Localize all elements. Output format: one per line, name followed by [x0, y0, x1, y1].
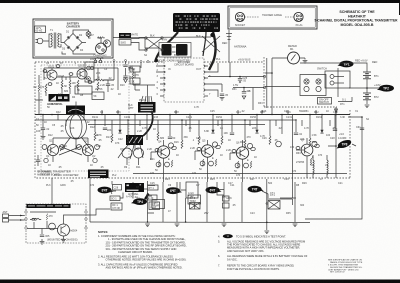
capacitor C112: [230, 133, 234, 135]
transistor Q101: [47, 66, 57, 81]
trainer connector right: [294, 12, 303, 26]
capacitor C31: [123, 73, 132, 79]
right edge scan mark: [399, 3, 400, 15]
capacitor C111: [168, 137, 176, 140]
wire mid link: [208, 62, 265, 110]
connector circle on x267: [266, 203, 268, 205]
battery pack (black): [173, 13, 220, 32]
ground rf box: [40, 242, 45, 245]
resistor R101: [56, 80, 63, 89]
resistor RE4a: [158, 160, 160, 167]
notes right column: [218, 234, 308, 270]
left edge column parts: [35, 75, 43, 115]
wire cable between connectors: [143, 113, 153, 137]
wire charger internals: [62, 43, 96, 55]
ground lower mid: [264, 231, 269, 234]
resistor R115: [198, 136, 200, 145]
cable branch: [203, 32, 206, 56]
TP6 test point: [206, 187, 222, 194]
inner dashed sub-box: [41, 65, 129, 171]
driver module box: [265, 75, 326, 96]
trainer cable box: [228, 6, 317, 29]
wire TP feeds: [112, 144, 356, 198]
TP5 test point: [166, 187, 182, 194]
wire transistor row stubs: [53, 138, 307, 182]
connector circles on dashed edge: [113, 60, 149, 63]
resistor R2 left: [34, 84, 40, 92]
switch S2 box: [119, 40, 131, 46]
wire battery column: [353, 63, 367, 104]
black label transmitter board: [88, 170, 109, 179]
small box J4: [152, 200, 165, 209]
resistor R110: [94, 132, 102, 141]
ground rail 3: [222, 224, 227, 227]
trim box chain b: [130, 78, 140, 84]
wire oscillator top rail: [44, 68, 118, 90]
resistor R104: [40, 84, 47, 93]
+9.6V bus wire: [35, 114, 350, 116]
rf oscillator box: [317, 68, 350, 89]
transistor Q8: [276, 141, 282, 147]
horizontal control black pot: [47, 94, 69, 106]
small box RF choke: [111, 203, 122, 210]
transformer T1: [47, 29, 59, 49]
extra speck labels oscillator: [36, 58, 125, 187]
wire mid feeders: [128, 62, 336, 205]
capacitor C101: [106, 84, 115, 87]
sub box with pins right of Q102: [85, 62, 94, 82]
transistor Q2: [82, 140, 93, 156]
transistor row labels: [48, 146, 295, 173]
ground rf box 2: [61, 240, 66, 243]
small stack box right of TP6 b: [223, 203, 230, 208]
battery cells holder: [159, 43, 191, 58]
black connector block SO201: [126, 135, 143, 145]
third bus wire: [88, 124, 265, 126]
resistor RE5b: [215, 159, 217, 166]
lower extra labels: [54, 174, 343, 187]
wire encoder-right vertical: [266, 58, 268, 108]
pilot lamp: [86, 30, 91, 36]
stick 2 fan wires: [118, 145, 143, 159]
coil L3: [327, 160, 328, 174]
battery charger enclosure box: [33, 19, 113, 58]
resistor RE6a: [237, 161, 239, 168]
resistor R105: [97, 82, 105, 91]
resistor R119: [309, 134, 317, 147]
notes left column: [98, 230, 187, 270]
transistor Q1: [47, 140, 58, 156]
extra speck labels transistor row: [46, 148, 314, 177]
resistor R106 horizontal: [94, 77, 114, 81]
trim pots under Q5: [200, 161, 213, 166]
TP3 test point: [98, 187, 114, 194]
wire box links: [86, 181, 155, 222]
cable cross arrow: [202, 36, 220, 52]
diode D110: [118, 130, 121, 133]
transistor Q102: [77, 65, 87, 80]
coil L201: [30, 218, 41, 219]
switch symbol S1: [335, 109, 338, 113]
connector circle on x147: [147, 198, 149, 200]
on-off switch label box: [318, 98, 332, 105]
wire bus short stubs: [58, 110, 330, 126]
wire TP2 tail: [349, 87, 379, 89]
charge jack black label: [119, 33, 131, 39]
wire trim chain: [135, 72, 140, 90]
diode D113: [320, 130, 323, 133]
wires RF box internals: [27, 212, 86, 241]
transistor Q4: [157, 141, 173, 159]
wire cross-coupling X: [59, 146, 82, 155]
wire charger to cells: [113, 37, 211, 48]
antenna jack: [3, 211, 25, 222]
trim pot box: [75, 86, 92, 94]
resistor R130: [132, 72, 139, 80]
label rf power amplifier: [37, 171, 51, 177]
resistor R111: [107, 129, 113, 143]
ground meter: [303, 61, 308, 64]
diode D111: [211, 130, 214, 133]
black blob cable end: [155, 59, 158, 62]
scattered value labels row B: [98, 130, 331, 145]
transistor Q6: [236, 142, 253, 160]
battery BT2: [363, 93, 379, 100]
vertical control black pot: [66, 106, 85, 115]
wire emitter return rail: [133, 173, 347, 175]
wire right lower: [280, 115, 296, 199]
wire left column: [42, 115, 44, 137]
TP1 test point: [338, 61, 354, 68]
rail drop wires: [52, 178, 295, 230]
encoder pin stubs: [160, 66, 208, 96]
junction circled A: [263, 75, 265, 77]
capacitor C61: [360, 128, 364, 130]
wire oscillator links: [46, 76, 108, 96]
transistor Q3: [122, 148, 144, 158]
small box SO1: [110, 196, 120, 201]
meter transistor A6504: [58, 224, 78, 236]
small box J5: [188, 195, 201, 204]
charging plug mate circles: [94, 58, 102, 63]
pin bubbles Q7: [296, 144, 319, 149]
capacitor C113: [294, 133, 303, 136]
right stack box B: [147, 195, 157, 200]
stick shaft wire: [75, 102, 77, 115]
trim pots under Q4: [156, 162, 169, 167]
stick gimbal mechanism: [60, 114, 92, 151]
capacitor C201: [40, 235, 50, 238]
ground open triangle: [124, 78, 128, 83]
cable bundle left: [155, 32, 178, 62]
hatch box J2: [190, 203, 201, 210]
resistor RE5a: [202, 159, 204, 166]
resistor RE4b: [171, 160, 173, 167]
junction dot right column: [335, 114, 363, 147]
scan grain overlay: [0, 0, 1, 1]
trim pots under Q6: [235, 163, 248, 168]
capacitor C25: [238, 77, 248, 83]
wire labels near PL201: [128, 104, 134, 110]
wire right column: [305, 117, 362, 219]
right side labels: [296, 61, 381, 167]
charging plug connector: [93, 40, 110, 60]
second bus wire: [35, 119, 296, 121]
ground left column: [41, 137, 46, 140]
TP7 test point: [248, 186, 264, 193]
cable bundle right: [209, 32, 216, 70]
diode D112: [255, 130, 258, 133]
capacitor C120: [220, 94, 229, 97]
pin bubbles Q5: [197, 145, 220, 150]
encoder circuit board dashed box: [164, 58, 204, 102]
title text block: [315, 10, 398, 27]
rail area labels: [136, 194, 305, 215]
resistor RE6b: [250, 161, 252, 168]
encoder pin arrows: [164, 65, 206, 91]
pin bubbles Q6: [232, 147, 255, 152]
top cable labels: [130, 34, 227, 63]
bottom rail wire: [90, 221, 310, 224]
ground battery: [365, 105, 370, 108]
small box DL1: [268, 201, 280, 210]
meter M1: [265, 45, 305, 115]
resistor R102: [69, 80, 76, 89]
ground rail 1: [145, 224, 150, 227]
battery BT1: [363, 72, 379, 79]
wire oscillator drop: [300, 63, 353, 97]
wire q1-q2 link: [57, 77, 77, 80]
note 4 test point glyph: [218, 234, 233, 238]
TP8 test point: [335, 138, 352, 150]
RF output indicator dashed box: [25, 204, 87, 243]
capacitor C30 electrolytic: [123, 62, 135, 72]
resistor R103: [77, 80, 79, 89]
wire bus drops row: [95, 115, 335, 149]
transistor Q5: [201, 140, 217, 158]
diode bridge D1-D4: [59, 30, 86, 52]
scattered value labels row D: [134, 182, 300, 199]
ground encoder: [220, 98, 225, 101]
capacitor C26: [242, 88, 251, 100]
black connector block PL201: [138, 99, 156, 113]
wire switch link: [338, 97, 352, 102]
wire trainer link: [245, 16, 294, 18]
resistor R113: [153, 128, 159, 141]
resistor RE7: [310, 158, 312, 165]
trim pots under Q2: [44, 158, 97, 162]
capacitor C110: [103, 128, 107, 130]
resistor R114: [181, 136, 188, 149]
pin bubbles Q101: [43, 65, 60, 86]
wire encoder feed: [156, 63, 222, 97]
resistor R1: [89, 34, 105, 43]
trim pot circles row: [42, 145, 99, 150]
extra speck labels band: [44, 111, 338, 144]
capacitor C3 left: [36, 155, 40, 166]
junction circled B: [263, 86, 265, 88]
ground rail 2: [175, 224, 180, 227]
resistor R117: [244, 136, 251, 149]
transistor small driver: [49, 223, 56, 230]
mid extra labels: [144, 54, 329, 113]
trainer cable label: [262, 14, 282, 17]
pin bubbles Q102: [69, 67, 94, 84]
resistor R201: [46, 214, 53, 221]
antenna: [226, 30, 247, 62]
AC line plug: [35, 26, 48, 44]
resistor R116: [221, 132, 228, 145]
transistor Q7: [301, 139, 317, 156]
resistor R112: [127, 135, 129, 144]
black box low-pass filter: [125, 183, 144, 198]
resistor R118: [269, 136, 271, 145]
label transmitter circuit board text: [38, 171, 71, 177]
bottom border bar: [0, 280, 400, 283]
right stack box C: [149, 202, 160, 210]
encoder pin labels: [157, 63, 212, 96]
pin bubbles Q4: [155, 146, 176, 151]
capacitor C102: [41, 128, 50, 131]
ground rail 4: [293, 224, 298, 227]
trim box chain a: [130, 66, 140, 72]
capacitor C202: [32, 219, 36, 221]
capacitor C114: [333, 129, 337, 131]
TP2 test point: [377, 85, 394, 92]
wire +9.6V label feed: [355, 60, 368, 63]
copyright block: [328, 259, 363, 274]
scattered value labels row C: [62, 145, 323, 161]
top border bar: [0, 0, 400, 3]
pot label box left: [92, 92, 104, 100]
oscillator extra parts labels: [36, 71, 121, 127]
coil L2: [313, 160, 314, 174]
small stack box right of TP6 a: [223, 196, 230, 201]
right stack box A: [148, 185, 159, 190]
wire PL201 fan: [141, 96, 152, 102]
wire riser x114: [103, 60, 126, 80]
small box C28: [113, 185, 122, 191]
trainer connector left: [235, 12, 246, 26]
TP4 test point: [131, 193, 150, 206]
main enclosure dashed outline: [35, 57, 350, 178]
scattered value labels row A: [92, 116, 345, 119]
junction dots mid: [229, 76, 245, 89]
junction dots bus extra: [57, 114, 335, 121]
wire X crossover: [131, 35, 163, 52]
relay box K1: [186, 182, 198, 198]
